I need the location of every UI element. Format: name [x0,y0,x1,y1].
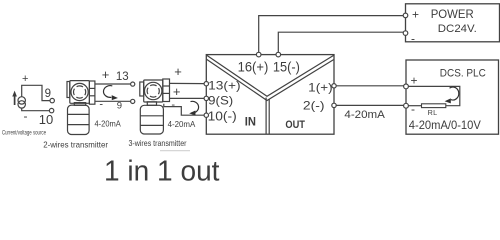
svg-text:16(+): 16(+) [238,59,269,74]
terminal power - [403,31,408,36]
svg-text:4-20mA/0-10V: 4-20mA/0-10V [409,118,481,132]
svg-text:+: + [410,73,417,87]
power supply box [406,4,500,42]
wire [259,16,404,55]
terminal 13(+) [204,82,208,86]
resistor RL [422,104,446,108]
terminal 16(+) [256,52,261,57]
svg-text:-: - [411,32,415,46]
wire [95,100,131,102]
svg-text:10: 10 [39,112,53,127]
svg-text:-: - [171,99,175,111]
terminal DCS + [404,84,409,89]
4-20mA loop arrow [103,86,117,101]
wire [408,105,421,107]
svg-text:10(-): 10(-) [208,109,237,123]
wire [336,104,404,106]
terminal 15(-) [276,52,281,57]
transmitter T2 (3-wire) [140,79,170,134]
svg-text:POWER: POWER [431,7,474,21]
terminal [131,82,135,86]
faint mark [160,150,190,152]
svg-text:4-20mA: 4-20mA [168,120,196,129]
svg-text:-: - [99,99,103,111]
svg-text:+: + [173,84,181,99]
terminal [131,99,135,103]
load loop arrow [445,87,459,103]
terminal 10(-) [204,113,208,117]
node 10 terminal [49,108,53,112]
svg-text:IN: IN [245,116,256,128]
terminal 2(-) [332,103,336,107]
terminal power + [403,13,408,18]
svg-text:13(+): 13(+) [208,79,240,93]
svg-text:Current/voltage source: Current/voltage source [2,129,46,136]
svg-text:1 in 1 out: 1 in 1 out [104,155,220,182]
wire [22,85,51,100]
isolator U1 body [206,55,334,135]
svg-text:+: + [22,73,28,85]
svg-text:-: - [411,102,415,116]
svg-text:1(+): 1(+) [308,80,332,94]
svg-text:-: - [24,109,28,123]
svg-text:+: + [174,64,182,79]
svg-text:DCS. PLC: DCS. PLC [440,68,486,80]
svg-text:2(-): 2(-) [303,99,325,113]
svg-text:+: + [412,8,419,22]
current/voltage source G1 [18,97,25,108]
wire [408,86,459,105]
svg-text:DC24V.: DC24V. [438,23,477,35]
V separator [207,55,334,134]
svg-text:15(-): 15(-) [273,59,300,74]
wire [170,82,205,84]
svg-text:RL: RL [428,108,438,117]
svg-text:9: 9 [117,100,122,111]
4-20mA loop arrow [189,101,198,115]
svg-text:3-wires transmitter: 3-wires transmitter [129,139,187,148]
current/voltage source arrow [12,91,17,105]
DCS PLC box [406,60,499,134]
wire [22,108,50,111]
node 9 terminal [50,98,54,102]
svg-text:2-wires transmitter: 2-wires transmitter [43,141,108,150]
wire [164,104,205,115]
svg-text:+: + [102,67,110,82]
wire [278,32,403,54]
svg-text:4-20mA: 4-20mA [95,119,122,128]
svg-text:4-20mA: 4-20mA [344,109,385,121]
svg-text:9(S): 9(S) [208,93,233,107]
terminal DCS - [404,103,409,108]
wire [95,83,131,85]
terminal 1(+) [332,84,336,88]
svg-text:9: 9 [45,88,51,100]
svg-text:OUT: OUT [285,119,305,131]
transmitter T1 (2-wire) [67,81,95,135]
svg-text:13: 13 [116,71,129,83]
wire [336,85,404,87]
wire [170,97,205,99]
terminal 9(S) [204,96,208,100]
